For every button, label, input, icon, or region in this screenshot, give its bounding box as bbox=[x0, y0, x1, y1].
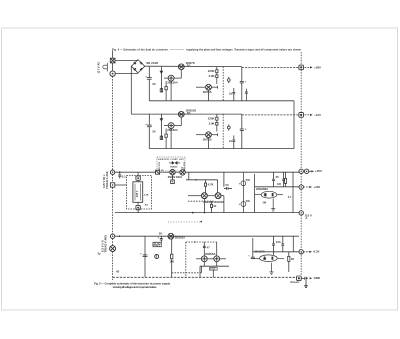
resistor R7 bbox=[204, 180, 214, 193]
wire Q14 up bbox=[216, 242, 218, 256]
capacitor C11 bbox=[272, 172, 279, 187]
resistor R9 bbox=[169, 239, 174, 277]
wires Q13 Q14 bbox=[196, 258, 201, 260]
svg-text:50: 50 bbox=[159, 231, 163, 235]
regulator square bbox=[171, 175, 175, 184]
wire Q14 stub down bbox=[216, 262, 218, 267]
wire under-rail link bbox=[201, 266, 203, 273]
svg-text:115 V: 115 V bbox=[135, 190, 139, 197]
capacitor C16 bbox=[281, 236, 284, 252]
wire Q13 stub down bbox=[203, 262, 205, 267]
arrowhead on middle bottom rail bbox=[192, 212, 195, 214]
capacitor C9 bbox=[224, 172, 232, 190]
svg-text:+28V: +28V bbox=[314, 65, 321, 69]
wire resistor column bbox=[216, 67, 218, 70]
diode CR1 column bbox=[160, 67, 162, 92]
svg-text:115 V 60 c: 115 V 60 c bbox=[102, 174, 106, 188]
transistor Q10 (dark) bbox=[215, 193, 221, 199]
svg-text:0.1: 0.1 bbox=[122, 175, 126, 179]
wire block2 output to connector bbox=[242, 114, 299, 116]
transistor Q7 bbox=[170, 170, 175, 175]
capacitor C4 bbox=[245, 89, 248, 101]
svg-text:1N4002: 1N4002 bbox=[170, 166, 178, 169]
diode CR2 column bbox=[160, 114, 162, 139]
resistor R5 bbox=[216, 117, 218, 120]
svg-text:SR 2A05: SR 2A05 bbox=[146, 61, 158, 65]
svg-text:Fig. 4 — Schematic of the dual: Fig. 4 — Schematic of the dual dc conver… bbox=[112, 48, 168, 52]
svg-text:45: 45 bbox=[116, 270, 120, 274]
connector J2 bbox=[299, 113, 304, 118]
wire: fuse to bridge top bbox=[115, 59, 138, 61]
AC plug P1 bbox=[103, 63, 108, 72]
oval transistor Q15 bbox=[253, 255, 284, 262]
wire Q9 emitter to rail bbox=[203, 199, 205, 213]
svg-text:AS: AS bbox=[145, 204, 149, 207]
connector T3b bbox=[110, 246, 116, 252]
svg-text:0.1Ω: 0.1Ω bbox=[210, 268, 215, 271]
svg-text:3.9K: 3.9K bbox=[209, 122, 216, 126]
oval transistor Q11 bbox=[255, 191, 283, 198]
connector T3a bbox=[110, 234, 114, 238]
connector J3 pair bbox=[299, 169, 309, 173]
svg-text:Fig. 5 — Complete schematic of: Fig. 5 — Complete schematic of the trans… bbox=[94, 281, 170, 285]
transistor Q3 bbox=[206, 84, 212, 90]
svg-text:+: + bbox=[140, 251, 142, 255]
svg-text:400 CPS: 400 CPS bbox=[158, 161, 161, 170]
wires Q3 bbox=[196, 86, 205, 88]
mid column dashed 2 bbox=[222, 114, 224, 149]
ground bottom block bbox=[270, 263, 274, 275]
wire rail segment bbox=[160, 171, 170, 173]
svg-text:chassis: chassis bbox=[290, 280, 300, 284]
junction dot bbox=[119, 171, 121, 173]
wire right column bottom block bbox=[292, 236, 294, 252]
wire bottom ground rail dashed bbox=[113, 276, 297, 278]
svg-text:+150: +150 bbox=[313, 185, 320, 189]
capacitor C5 (filter) bbox=[145, 114, 156, 149]
resistor R1 bbox=[216, 70, 218, 73]
svg-text:2y: 2y bbox=[98, 252, 102, 256]
transistor Q4 bbox=[178, 111, 184, 117]
resistor R8 bbox=[284, 172, 292, 199]
resistor R4 bbox=[165, 134, 167, 137]
svg-text:−12V: −12V bbox=[314, 113, 321, 117]
wire under transistors bbox=[200, 265, 229, 267]
capacitor C7 (output) bbox=[240, 114, 247, 149]
wire: main left line (long, dashed look) bbox=[112, 63, 114, 71]
capacitor C14 with plus bbox=[157, 231, 162, 242]
transistor Q14 bbox=[214, 256, 220, 262]
capacitor C15 bbox=[272, 236, 281, 255]
svg-text:20: 20 bbox=[152, 129, 156, 133]
svg-text:+: + bbox=[157, 235, 159, 239]
wire Q13 up bbox=[203, 242, 205, 256]
wires Q6 bbox=[196, 134, 205, 136]
svg-text:6.3V: 6.3V bbox=[313, 250, 319, 254]
dashed label box above middle block bbox=[157, 157, 186, 171]
wire T1b stub bbox=[115, 184, 127, 186]
wire vertical x145 bbox=[144, 236, 146, 277]
svg-text:+: + bbox=[245, 80, 247, 84]
wire R10 to ground rail bbox=[212, 270, 214, 277]
wire bbox=[175, 171, 180, 173]
precision resistor box bbox=[153, 241, 162, 247]
svg-text:6.3 V 2 A: 6.3 V 2 A bbox=[101, 240, 105, 252]
svg-text:500: 500 bbox=[246, 179, 251, 182]
connector T1a bbox=[110, 170, 114, 174]
svg-text:GND: GND bbox=[314, 276, 321, 280]
electrolytic C10 bbox=[239, 172, 246, 212]
resistor R12 under loop bbox=[210, 201, 216, 212]
svg-text:+: + bbox=[239, 202, 241, 206]
wires Q5 area bbox=[164, 125, 168, 127]
transistor Q13 bbox=[201, 256, 207, 262]
switch S1 bbox=[110, 71, 115, 76]
svg-text:100: 100 bbox=[169, 260, 174, 264]
dashed module box bbox=[127, 176, 152, 210]
wire joining block bottoms bbox=[293, 101, 295, 149]
svg-text:—————: ————— bbox=[170, 49, 184, 52]
dashed horizontal y242 bbox=[186, 241, 217, 243]
wire middle top rail bbox=[115, 171, 156, 173]
wire column bbox=[254, 174, 256, 213]
resistor R2 bbox=[216, 75, 218, 78]
transistor Q5 bbox=[168, 123, 174, 129]
wire bottom mid bbox=[253, 251, 299, 253]
svg-text:2x: 2x bbox=[229, 139, 233, 143]
svg-text:117 V AC: 117 V AC bbox=[97, 62, 101, 74]
svg-text:showing all voltages and compo: showing all voltages and component value… bbox=[113, 285, 158, 289]
wire: main left line top bbox=[112, 51, 114, 59]
capacitor C13 bbox=[140, 251, 147, 256]
svg-text:+: + bbox=[239, 181, 241, 185]
wire vertical x252.8 bbox=[252, 238, 254, 257]
svg-text:100: 100 bbox=[277, 183, 282, 186]
mid column dashed bbox=[222, 67, 224, 101]
small labels near rectifier row bbox=[161, 167, 184, 178]
wire loop right bbox=[217, 180, 219, 193]
svg-text:220K: 220K bbox=[208, 69, 216, 73]
capacitor on Q13 branch bbox=[203, 245, 210, 249]
wire right column middle block bbox=[292, 172, 294, 212]
output arrow 1 bbox=[305, 65, 321, 69]
svg-text:2x: 2x bbox=[229, 91, 233, 95]
transistor Q12 bbox=[168, 233, 174, 239]
svg-text:supplying the plate and bias v: supplying the plate and bias voltages. T… bbox=[186, 48, 301, 52]
svg-text:A: A bbox=[305, 216, 307, 220]
svg-text:1K: 1K bbox=[213, 205, 216, 208]
svg-text:2N404 1N91: 2N404 1N91 bbox=[168, 175, 183, 179]
capacitor C3 (output) bbox=[240, 67, 247, 101]
output arrow 5 bbox=[303, 250, 319, 254]
svg-text:2N1968A: 2N1968A bbox=[256, 187, 269, 191]
connector J5 bbox=[299, 211, 303, 215]
wires Q2 area bbox=[164, 77, 168, 79]
connector J7 bbox=[297, 276, 302, 281]
value labels middle right bbox=[246, 179, 282, 204]
output arrow 3 bbox=[309, 169, 322, 173]
wire secondary rail bbox=[186, 179, 218, 181]
svg-text:100: 100 bbox=[276, 240, 281, 244]
svg-text:+: + bbox=[145, 122, 147, 126]
svg-text:2N1304: 2N1304 bbox=[167, 128, 178, 132]
diode D6 bbox=[227, 124, 230, 130]
svg-text:+250: +250 bbox=[315, 169, 322, 173]
transistor Q6 bbox=[206, 132, 212, 138]
svg-text:2N1304: 2N1304 bbox=[167, 80, 178, 84]
svg-text:400 CPS: 400 CPS bbox=[183, 161, 186, 170]
wire block1 output to connector bbox=[242, 66, 299, 68]
transformer T2 bottom terminal bbox=[136, 180, 149, 212]
wire C9 column to rail bbox=[223, 196, 225, 213]
capacitor C2 bbox=[229, 88, 235, 101]
svg-text:TR: TR bbox=[264, 194, 267, 197]
svg-text:2N705: 2N705 bbox=[203, 90, 212, 94]
transistor Q1 bbox=[178, 64, 184, 70]
svg-text:2N456A: 2N456A bbox=[205, 252, 217, 256]
svg-text:HEATER COMP 45C: HEATER COMP 45C bbox=[158, 158, 184, 161]
wire resistor column 2 bbox=[216, 114, 218, 117]
connector J4 bbox=[299, 185, 303, 189]
svg-text:25: 25 bbox=[276, 175, 280, 179]
capacitor C6 bbox=[229, 136, 235, 149]
connector J6 bbox=[299, 250, 303, 254]
wire rail drop to loop bbox=[188, 172, 190, 180]
wires Q9 Q10 bbox=[188, 195, 202, 197]
transistor Q9 (dark) bbox=[202, 193, 208, 199]
svg-text:PREC: PREC bbox=[154, 244, 161, 248]
transformer T2 core bbox=[133, 182, 143, 203]
resistor R6 bbox=[216, 122, 218, 125]
svg-text:+: + bbox=[145, 74, 147, 78]
wire middle bottom rail bbox=[115, 212, 299, 214]
capacitor C8 small bbox=[118, 172, 126, 178]
fuse F1 bbox=[110, 58, 115, 63]
svg-text:4.7: 4.7 bbox=[288, 195, 292, 199]
resistor R10 box bbox=[209, 268, 217, 271]
resistor R3 bbox=[165, 87, 167, 90]
wire block2 bottom rail bbox=[149, 148, 294, 150]
wire: switch to bridge bottom bbox=[115, 73, 138, 75]
ground middle bbox=[271, 199, 275, 212]
output arrow 4 bbox=[303, 185, 320, 189]
dotted stub above bottom block bbox=[168, 221, 201, 223]
output cap and arrow bbox=[301, 276, 320, 280]
wire: bridge left vertex down to block2 rail bbox=[130, 66, 132, 114]
wire: bridge right vertex to block1 rail bbox=[145, 65, 242, 67]
dashed stub bbox=[188, 200, 214, 202]
output arrow 2 bbox=[305, 113, 321, 117]
svg-text:2N705: 2N705 bbox=[203, 138, 212, 142]
svg-text:+: + bbox=[245, 127, 247, 131]
svg-text:50: 50 bbox=[225, 183, 229, 187]
capacitor C1 (filter) bbox=[145, 67, 156, 101]
svg-text:2.2K: 2.2K bbox=[144, 194, 149, 196]
svg-text:2N1302 2N1302: 2N1302 2N1302 bbox=[203, 200, 224, 204]
transistor Q8 bbox=[180, 170, 185, 175]
junction dot on dashed bbox=[194, 241, 196, 243]
svg-text:TR: TR bbox=[263, 258, 266, 261]
wire rail to right bbox=[185, 171, 299, 173]
transformer T2 top terminal bbox=[136, 172, 140, 180]
wire block1 bottom rail bbox=[149, 100, 294, 102]
connector T1b bbox=[110, 183, 114, 187]
resistor R11 bbox=[288, 252, 296, 272]
wire block2 top rail bbox=[131, 113, 242, 115]
right bus wire bbox=[300, 52, 302, 65]
svg-text:20: 20 bbox=[152, 82, 156, 86]
wire mid bbox=[255, 186, 299, 188]
capacitor C12 bbox=[282, 172, 285, 187]
svg-text:3.9K: 3.9K bbox=[209, 74, 216, 78]
ground symbol small bbox=[304, 280, 307, 287]
svg-text:500: 500 bbox=[246, 200, 251, 203]
diode D5 bbox=[227, 77, 230, 83]
bridge rectifier D1-D4 bbox=[131, 60, 145, 73]
rectifier block X1 bbox=[156, 170, 160, 174]
dashed vertical x185.8 bbox=[185, 242, 187, 277]
svg-text:2N1163: 2N1163 bbox=[175, 235, 185, 239]
connector J1 bbox=[299, 65, 304, 70]
svg-text:220K: 220K bbox=[208, 116, 216, 120]
wire bottom top rail bbox=[115, 235, 299, 237]
pot circle bbox=[155, 255, 159, 259]
top caption text line bbox=[112, 48, 301, 52]
svg-text:4.7K: 4.7K bbox=[208, 183, 215, 187]
transistor Q2 bbox=[168, 75, 174, 81]
